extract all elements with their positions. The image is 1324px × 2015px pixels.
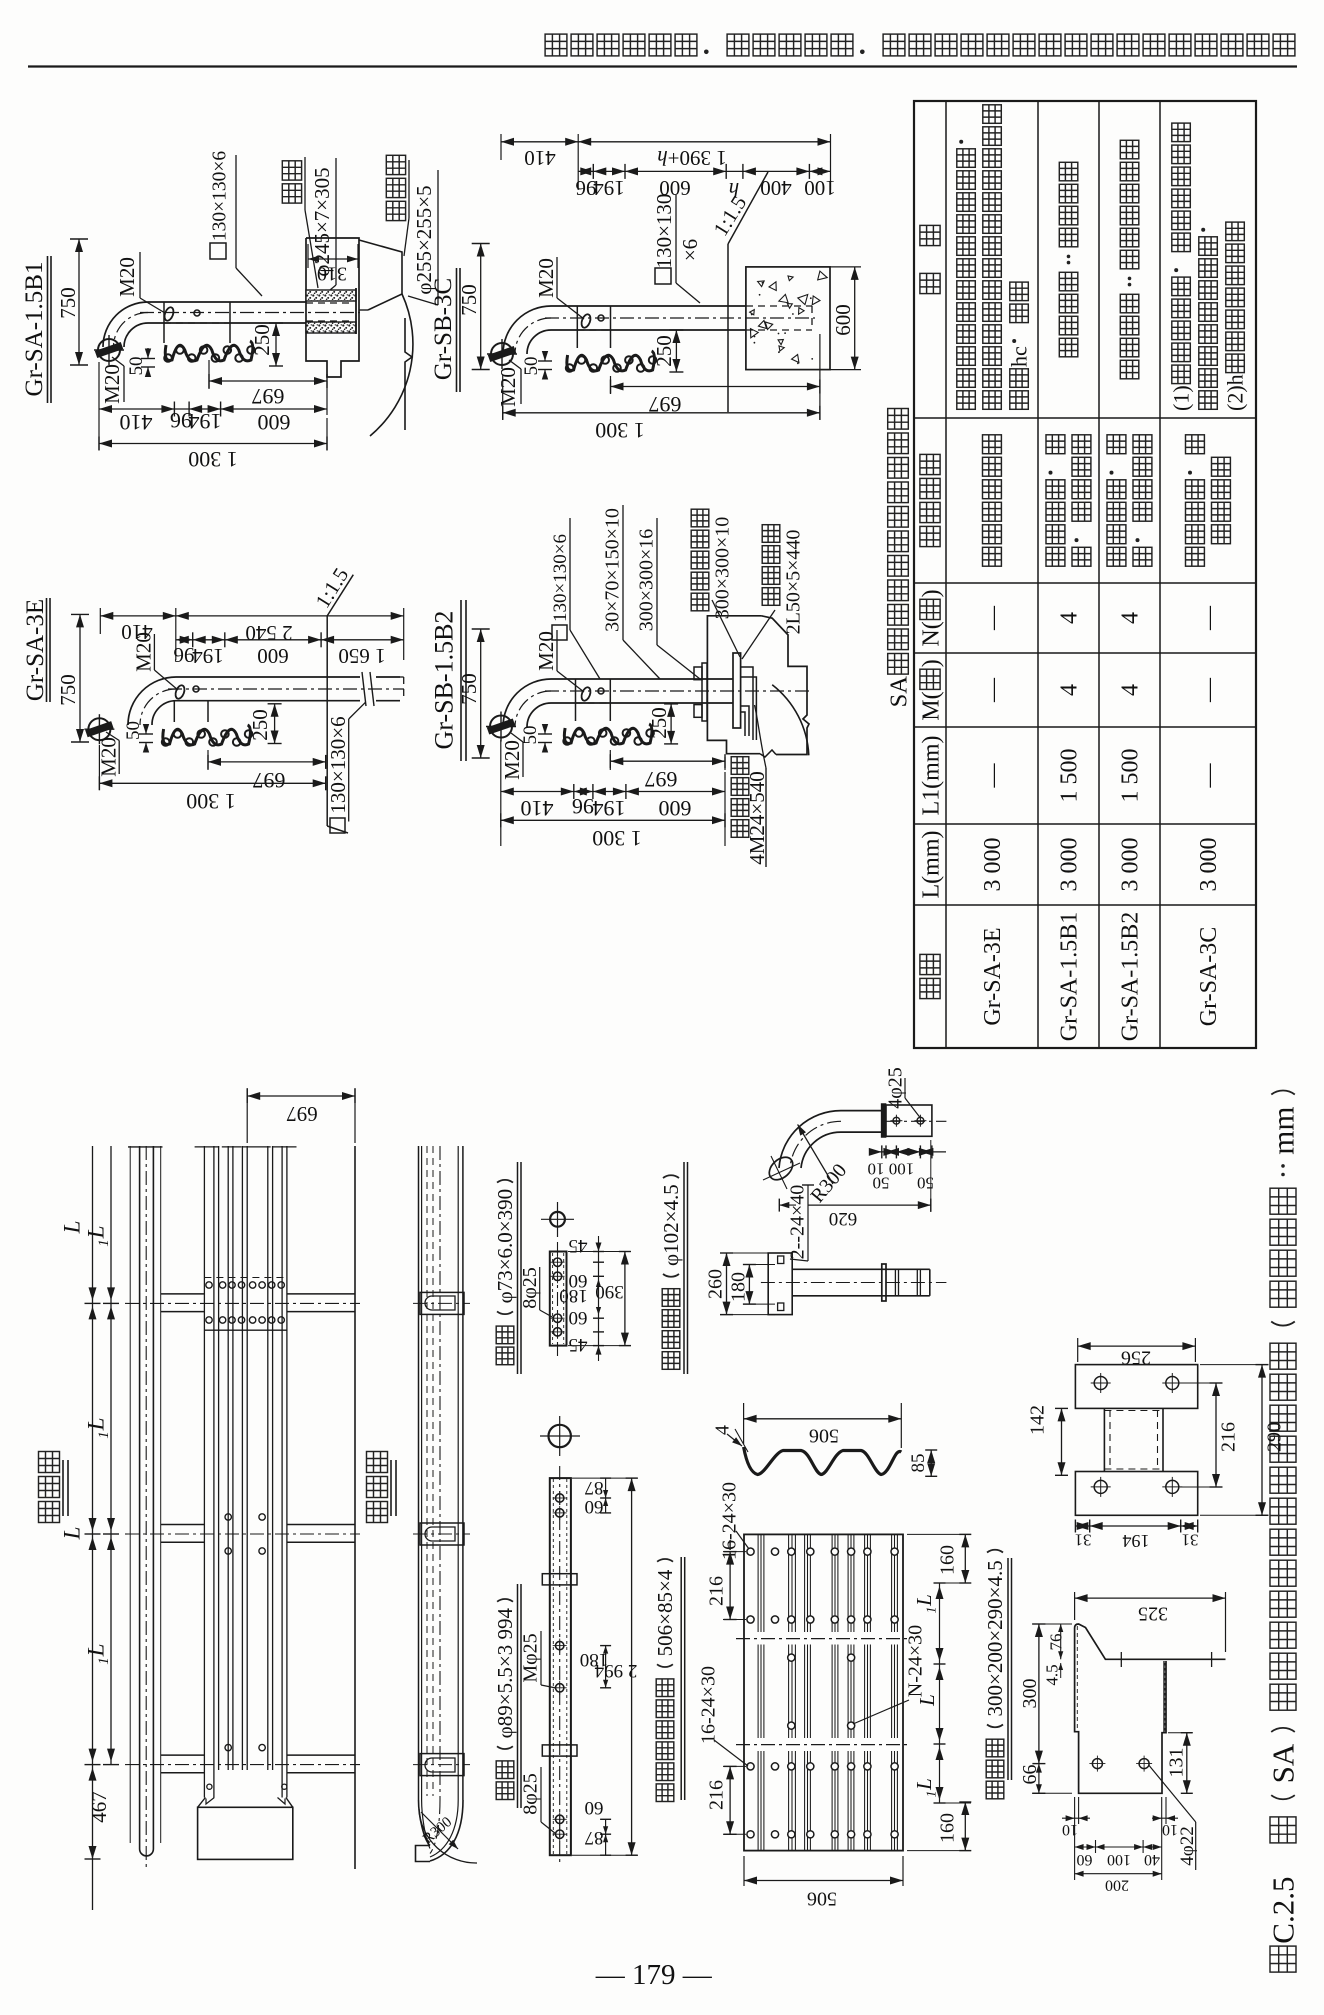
cane curve (B) [503,306,551,354]
dims (C): 96 194 600 1 650 [192,632,194,647]
panel stripe bands [757,1534,759,1850]
svg-text:300×300×16: 300×300×16 [636,529,658,632]
dim 1 300 (A) [99,443,327,445]
svg-text:8φ25: 8φ25 [519,1267,541,1309]
stripe breaks at joints (panel) [745,1632,902,1645]
cane curve (D) [503,679,551,727]
svg-text:L1(mm): L1(mm) [918,736,944,816]
beam bar (hengliang) [550,1478,571,1855]
pipe dashed end (C) [400,676,404,678]
svg-text:Gr-SA-1.5B1: Gr-SA-1.5B1 [1056,912,1082,1042]
splice verticals (B) [576,306,578,348]
svg-text:Gr-SA-3C: Gr-SA-3C [1196,927,1222,1027]
svg-text:620: 620 [829,1208,858,1229]
svg-text:194: 194 [593,176,625,200]
svg-text:φ73×6.0×390: φ73×6.0×390 [493,1189,517,1304]
panel bolts [747,1548,754,1555]
post pipe (C) [176,676,360,678]
svg-text:160: 160 [937,1813,959,1843]
col: remarks [957,391,976,410]
svg-text:76: 76 [1047,1634,1066,1651]
svg-text:—: — [1196,763,1222,789]
label dijiao luoshuan 4M24x540 (D) [731,820,749,838]
svg-text:4: 4 [1056,612,1082,624]
table header row [920,978,940,998]
svg-text:216: 216 [1218,1422,1240,1452]
svg-text:160: 160 [937,1545,959,1575]
svg-text:φ102×4.5: φ102×4.5 [659,1184,683,1266]
svg-text:8φ25: 8φ25 [520,1773,542,1815]
view2 post with base plate (lizhu) [768,1253,792,1315]
svg-text:Gr-SA-3E: Gr-SA-3E [22,599,49,701]
flattened end w/ holes (lizhu) [886,1105,932,1136]
top dims (B): 410 / 1 390+h [500,134,502,160]
collar v2 (lizhu) [882,1264,886,1301]
svg-text:96: 96 [572,794,594,819]
svg-text:697: 697 [252,384,285,409]
svg-text:1 500: 1 500 [1117,749,1143,803]
svg-text:216: 216 [706,1780,728,1810]
svg-text:100: 100 [1107,1851,1131,1868]
svg-text:M(: M( [918,691,944,720]
svg-text:50: 50 [873,1173,890,1192]
posts clamps (plan) [420,1292,464,1314]
dims 410 96 194 600 (A) [98,362,100,450]
svg-text:N(: N( [918,621,944,646]
svg-text:410: 410 [120,410,153,435]
svg-text:194: 194 [593,796,626,821]
svg-text:1: 1 [96,1431,112,1439]
concrete footing outline (D) [707,616,761,754]
svg-text:(1): (1) [1169,385,1194,411]
svg-text:L: L [84,1226,109,1240]
bolts through flange (D) [694,667,702,680]
dim 697 (D) [609,750,611,770]
svg-text:250: 250 [248,709,272,741]
svg-text:—: — [980,763,1006,789]
holes (hengliang) [556,1494,564,1502]
view1 bent pipe (lizhu) [779,1111,841,1168]
svg-text:467: 467 [87,1791,111,1823]
svg-text:45: 45 [569,1334,588,1355]
svg-text:45: 45 [569,1235,588,1256]
svg-text:750: 750 [457,673,481,705]
svg-text:4φ25: 4φ25 [885,1067,907,1109]
w-beam section (C) [163,725,251,745]
dim 506 (wave) [743,1403,745,1444]
section symbol (taoguan) [550,1212,565,1227]
slot marks v2 (lizhu) [894,1269,896,1296]
svg-text:1:1.5: 1:1.5 [708,191,751,240]
figure caption [1270,1946,1296,1972]
panel joint centerlines [736,1638,911,1640]
svg-text:325: 325 [1138,1603,1168,1625]
svg-text:697: 697 [253,768,286,793]
table grid [914,101,1256,1048]
svg-text:697: 697 [286,1102,318,1126]
svg-text:SA: SA [886,676,913,708]
ground line (B) [727,244,729,412]
svg-text:50: 50 [521,357,542,376]
svg-text:697: 697 [645,767,678,792]
svg-text:130×130: 130×130 [652,194,676,269]
svg-text:Mφ25: Mφ25 [520,1633,542,1682]
cane curve (A) [103,302,148,347]
svg-text:4: 4 [1056,684,1082,696]
bolt holes (blockout plan) [1094,1377,1107,1390]
splice verticals (C) [173,701,175,722]
panel outline [744,1534,903,1850]
svg-text:85: 85 [908,1454,929,1473]
svg-text:194: 194 [1123,1531,1150,1551]
svg-text:3 000: 3 000 [1196,838,1222,892]
dim 310 (A) [307,244,309,268]
svg-text:3 000: 3 000 [1056,838,1082,892]
svg-text:): ) [918,589,944,597]
dim 697 (A) [208,360,210,389]
svg-text:100: 100 [804,176,836,200]
svg-text:130×130×6: 130×130×6 [209,151,230,241]
svg-text:750: 750 [56,287,80,319]
svg-text:L: L [915,1694,939,1707]
svg-text:1 300: 1 300 [186,789,236,814]
svg-text:M20: M20 [534,631,558,671]
ground line (elevation) [354,1146,356,1869]
svg-text:50: 50 [917,1173,934,1192]
top rail pipe (elevation) [129,1146,131,1843]
svg-text:10: 10 [1162,1821,1178,1838]
svg-text:2L50×5×440: 2L50×5×440 [783,530,805,635]
posts / crossbeams (elevation) [161,1293,205,1295]
svg-text:31: 31 [1075,1530,1092,1549]
sleeve collars (hengliang) [542,1574,577,1585]
mound arc (D) [772,685,809,756]
top dims (C): 410 / 2 540 [99,608,101,634]
dims 45 60 180 60 45 (taoguan) [593,1251,604,1253]
aggregate speckles (B) [769,280,780,290]
panel top cut caps (elevation) [195,1146,220,1148]
dim 2 994 (hengliang) [631,1478,633,1855]
right dims 160 L1 L L1 160 (panel) [907,1533,971,1535]
panel end legs (elevation) [198,1798,206,1808]
angle bracket upper (D) [741,667,753,740]
svg-text:750: 750 [56,674,80,706]
straight pipe v1 (lizhu) [841,1110,886,1112]
svg-text:1 300: 1 300 [188,447,238,472]
dim 506 bottom (panel) [743,1856,745,1886]
svg-text:1: 1 [925,1791,940,1798]
wave profile [744,1447,902,1475]
svg-text:250: 250 [250,324,274,356]
svg-text:750: 750 [457,284,481,316]
svg-text:216: 216 [706,1576,728,1606]
svg-text:R300: R300 [807,1160,852,1207]
end stub (plan) [416,1846,431,1862]
svg-text:10: 10 [1062,1821,1078,1838]
post pipe (A) [148,301,306,303]
blockout plan outline [1075,1365,1197,1409]
svg-text:390: 390 [595,1281,624,1302]
svg-text:1 650: 1 650 [338,644,385,668]
svg-text:L: L [60,1221,85,1235]
dim line L1 (elevation) [110,1146,112,1765]
post pipe (B) [551,305,746,307]
svg-text:96: 96 [174,643,195,667]
label boxingliang hulanban [656,1784,674,1802]
dim 256 (blockout plan) [1077,1338,1079,1362]
svg-text:400: 400 [760,176,792,200]
svg-text:3 000: 3 000 [1117,838,1143,892]
svg-text:2 540: 2 540 [245,621,292,645]
svg-text:87: 87 [585,1827,604,1848]
web stem (blockout side) [1163,1661,1165,1733]
svg-text:310: 310 [317,263,347,285]
base plate 30x70x150x10 (D) [702,663,707,721]
collar plate v1 (lizhu) [882,1104,886,1137]
svg-text:C.2.5: C.2.5 [1266,1877,1301,1944]
svg-text:1 300: 1 300 [592,826,642,851]
svg-text:506: 506 [809,1425,839,1447]
svg-text:200: 200 [1105,1876,1129,1893]
cane end cap (B) [491,343,513,365]
cane end cap (C) [88,718,110,740]
svg-text:16-24×30: 16-24×30 [698,1666,720,1744]
panel end anchor box (elevation) [198,1807,293,1859]
svg-text:N-24×30: N-24×30 [905,1625,927,1697]
svg-text:M20: M20 [534,258,558,298]
svg-text:L: L [84,1644,109,1658]
label taoguan [496,1347,514,1365]
col: applicable range [983,547,1002,566]
svg-text:M20: M20 [115,257,139,297]
svg-text:hc: hc [1007,346,1032,367]
svg-text:R300: R300 [420,1814,455,1847]
svg-text:60: 60 [569,1307,588,1328]
svg-text:50: 50 [123,721,144,740]
dim 1 300 (B) [502,375,504,420]
holes (blockout side) [1092,1759,1102,1769]
label sleeve taotong (A) [282,184,301,203]
bottom dims 10 60 100 40 10 200 (blockout side) [1074,1797,1076,1880]
svg-text:—: — [980,605,1006,631]
dim 325 (blockout side) [1074,1592,1076,1620]
svg-text:1: 1 [96,1239,112,1247]
svg-text:2--24×40: 2--24×40 [787,1185,809,1260]
svg-text:50: 50 [126,357,147,376]
ground line (C) [326,616,328,826]
arm break ticks (blockout side) [1120,1652,1122,1667]
page header title [545,34,567,56]
svg-text:Gr-SB-3C: Gr-SB-3C [430,278,457,380]
svg-text:60: 60 [585,1797,604,1818]
blockout side outline [1075,1624,1226,1659]
dim 1 300 (C) [98,745,100,790]
svg-text:1 390+h: 1 390+h [657,146,727,170]
svg-text:—: — [1196,605,1222,631]
bolts at posts 2,3 (elevation) [225,1514,231,1520]
sleeve bar (taoguan) [550,1252,567,1346]
label limiantu [39,1502,60,1523]
svg-text:(2)h: (2)h [1223,374,1248,411]
slots in plate v2 (lizhu) [778,1256,784,1264]
svg-text:L: L [912,1594,936,1607]
svg-text:506: 506 [807,1888,837,1910]
flange plate (D) [733,653,741,728]
label shangduan lizhu [662,1352,680,1370]
foundation block outline (A) [306,238,359,377]
svg-text:SA: SA [1266,1743,1301,1783]
svg-text:180: 180 [559,1285,588,1306]
svg-text:300×300×10: 300×300×10 [712,517,734,620]
svg-text:1 300: 1 300 [595,418,645,443]
splice verticals (D) [575,679,577,721]
dims 87 60 / 180 / 60 87 (hengliang) [600,1477,611,1479]
svg-text:60: 60 [585,1496,604,1517]
svg-text:87: 87 [585,1477,604,1498]
svg-text:M20: M20 [131,632,155,672]
svg-text:4φ22: 4φ22 [1177,1826,1198,1865]
header rule [28,65,1297,67]
svg-text:M20: M20 [100,364,124,404]
dim 697 (C) [207,750,209,770]
sleeve walls hatched (A) [306,290,356,301]
svg-text:Gr-SA-1.5B1: Gr-SA-1.5B1 [21,262,48,397]
w-beam section (A) [165,341,253,361]
svg-text:410: 410 [521,796,554,821]
dim 600 (B) [830,266,861,268]
label pingmiantu [367,1502,388,1523]
svg-text:): ) [918,659,944,667]
svg-text:— 179 —: — 179 — [595,1959,713,1991]
svg-text:40: 40 [1144,1851,1160,1868]
pipe break symbol (C) [362,672,366,706]
svg-text:M20: M20 [500,740,524,780]
svg-text:130×130×6: 130×130×6 [326,716,350,813]
svg-text:142: 142 [1027,1405,1049,1435]
svg-text:L(mm): L(mm) [918,831,944,899]
svg-text:4: 4 [712,1425,734,1435]
w-beam section (D) [564,724,652,744]
U channel (blockout plan) [1103,1408,1105,1471]
svg-text:600: 600 [659,796,692,821]
zigzag break bottom (D) [760,750,776,757]
svg-text:L: L [912,1778,936,1791]
svg-text:600: 600 [258,410,291,435]
rail lines (plan) [418,1146,420,1800]
post pipe (D) [551,678,733,680]
svg-text:Gr-SA-3E: Gr-SA-3E [980,927,1006,1025]
svg-text:250: 250 [647,707,671,739]
svg-text:2 994: 2 994 [594,1660,637,1681]
label hengliang [496,1782,514,1800]
label steel base plate (A) [386,201,405,220]
label jiaogang zhijia 2L50x5x440 (D) [762,588,780,606]
dim 697 above elevation [247,1095,355,1097]
svg-text:600: 600 [831,304,855,336]
svg-text:60: 60 [1077,1851,1093,1868]
label yumai falanpan 300x300x10 (D) [691,593,709,611]
svg-text:50: 50 [520,726,541,745]
svg-text:4: 4 [1117,684,1143,696]
dims (D): 410 96 194 600 [500,740,502,846]
svg-text:4.5: 4.5 [1043,1664,1062,1685]
svg-text:1:1.5: 1:1.5 [310,563,353,612]
dims 10 100 50 50 (lizhu) [881,1145,883,1158]
dim 697 (B) [610,376,612,394]
svg-text:1: 1 [96,1657,112,1665]
splice plate verticals (A) [163,302,165,343]
svg-text:L: L [60,1527,85,1541]
svg-text:131: 131 [1166,1748,1188,1778]
svg-text:3 000: 3 000 [980,838,1006,892]
R300 radius arc + label (plan end) [419,1809,477,1863]
w-beam section (B) [567,351,655,371]
svg-text:300: 300 [1019,1679,1041,1709]
dims 31 194 31 (blockout plan) [1074,1520,1076,1533]
svg-text:Gr-SA-1.5B2: Gr-SA-1.5B2 [1117,912,1143,1042]
svg-text:mm: mm [1266,1106,1301,1154]
svg-text:4: 4 [1117,612,1143,624]
dim 390 (taoguan) [624,1252,626,1346]
svg-text:—: — [980,677,1006,703]
blockout label [986,1781,1004,1799]
dim line L (elevation) [92,1146,94,1910]
svg-text:φ89×5.5×3 994: φ89×5.5×3 994 [493,1607,517,1738]
svg-text:×6: ×6 [678,239,702,261]
open end (lizhu) [765,1153,797,1184]
cane end cap (D) [490,716,512,738]
svg-text:194: 194 [189,409,222,434]
svg-text:100: 100 [889,1159,915,1178]
cane curve (C) [128,677,176,725]
concrete foundation block (B) [746,267,830,370]
cane curving away at end (plan) [430,1800,463,1861]
cane end cap (A) [98,339,120,361]
svg-text:Gr-SB-1.5B2: Gr-SB-1.5B2 [430,611,459,750]
pipe hidden in concrete (B) [746,305,812,307]
top dims (B): 96 194 600 h 400 100 [592,164,594,179]
svg-text:410: 410 [524,146,556,170]
svg-text:290: 290 [1264,1422,1286,1452]
svg-text:1 500: 1 500 [1056,749,1082,803]
svg-text:194: 194 [192,644,224,668]
svg-text:M20: M20 [496,367,520,407]
section symbol (hengliang) [549,1425,571,1447]
svg-text:31: 31 [1182,1530,1199,1549]
splice bolts mid-span (elevation) [206,1282,212,1288]
svg-text:1: 1 [925,1607,940,1614]
svg-text:30×70×150×10: 30×70×150×10 [602,508,624,632]
svg-text:L: L [84,1418,109,1432]
svg-text:260: 260 [705,1269,727,1299]
svg-text:130×130×6: 130×130×6 [550,534,571,622]
svg-text:600: 600 [257,644,289,668]
w-beam panel stripes (elevation) [218,1146,220,1770]
steel base plate edge + mound arc (A) [359,240,402,310]
svg-text:—: — [1196,677,1222,703]
svg-text:506×85×4: 506×85×4 [653,1569,677,1656]
dim 1 300 (D) [501,819,725,821]
svg-text:250: 250 [652,335,676,367]
dim 620 (lizhu) [808,1204,931,1206]
svg-text:300×200×290×4.5: 300×200×290×4.5 [983,1560,1007,1716]
angle bracket lower (D) [741,706,749,736]
